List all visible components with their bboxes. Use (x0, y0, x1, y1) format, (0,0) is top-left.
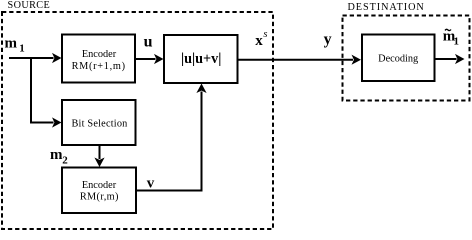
destination region dashed box (343, 16, 470, 101)
svg-text:v: v (147, 176, 155, 192)
block U1 Encoder RM(r+1,m) (62, 35, 135, 83)
arrowhead v up into combiner (196, 84, 206, 94)
wire decoded output (435, 58, 457, 60)
svg-text:RM(r,m): RM(r,m) (80, 192, 119, 203)
svg-text:|u|u+v|: |u|u+v| (181, 51, 221, 67)
wire m1 branch vertical (31, 57, 54, 123)
block U2 combiner |u|u+v| (164, 35, 238, 83)
svg-text:Encoder: Encoder (82, 49, 117, 60)
wire v (136, 92, 202, 191)
wire u (135, 58, 156, 60)
svg-text:Bit Selection: Bit Selection (71, 119, 127, 130)
svg-text:u: u (144, 34, 153, 51)
wire m1 input (9, 57, 54, 59)
arrowhead u into combiner (154, 54, 164, 64)
svg-text:m1: m1 (5, 35, 25, 54)
svg-text:RM(r+1,m): RM(r+1,m) (72, 61, 126, 72)
block U3 Bit Selection (62, 100, 136, 145)
svg-text:m2: m2 (50, 147, 68, 166)
svg-text:y: y (324, 31, 332, 48)
svg-text:m1: m1 (443, 28, 459, 47)
svg-text:SOURCE: SOURCE (8, 0, 51, 11)
block U4 Encoder RM(r,m) (62, 168, 136, 214)
svg-text:DESTINATION: DESTINATION (348, 2, 425, 13)
wire xs to decoding (238, 59, 354, 61)
arrowhead down into encoder RM(r,m) (94, 158, 104, 168)
arrowhead m1 into encoder RM(r+1,m) (52, 53, 62, 63)
wire bit selection to encoder RM(r,m) (99, 145, 101, 159)
svg-text:Decoding: Decoding (378, 53, 418, 64)
svg-text:Encoder: Encoder (82, 180, 117, 191)
block U5 Decoding (362, 35, 435, 82)
arrowhead branch into Bit Selection (52, 117, 62, 127)
arrowhead into Decoding (352, 55, 362, 65)
arrowhead output m1hat (455, 54, 465, 64)
svg-text:xs: xs (255, 29, 267, 49)
source region dashed box (2, 12, 273, 229)
